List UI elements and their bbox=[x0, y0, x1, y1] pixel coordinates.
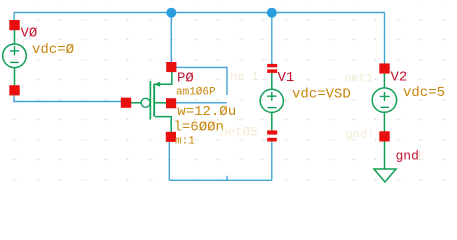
svg-text:V1: V1 bbox=[278, 70, 295, 86]
node net 1 label bbox=[230, 70, 259, 84]
gate bar bbox=[149, 81, 151, 119]
label V1 vdc=VSD bbox=[292, 86, 351, 102]
svg-text:PØ: PØ bbox=[177, 71, 194, 87]
wire drop to P0 top bbox=[170, 13, 172, 64]
svg-text:am1Ø6P: am1Ø6P bbox=[176, 87, 216, 99]
svg-text:vdc=VSD: vdc=VSD bbox=[292, 86, 351, 102]
svg-text:net1: net1 bbox=[344, 72, 373, 86]
label V2 vdc=5 bbox=[403, 85, 445, 101]
wire right drop to V2 bbox=[384, 13, 386, 65]
svg-text:ne 1: ne 1 bbox=[230, 70, 259, 84]
pin V1 plus (split bars) bbox=[267, 64, 277, 73]
svg-text:netØ5: netØ5 bbox=[220, 126, 258, 140]
svg-text:vdc=5: vdc=5 bbox=[403, 85, 445, 101]
wire bottom rail bbox=[169, 179, 271, 181]
wire V1 bottom drop bbox=[271, 142, 273, 181]
label P0 length bbox=[174, 120, 224, 136]
source lead with bend bbox=[155, 72, 172, 84]
pin V2 plus bbox=[379, 63, 389, 73]
pin V0 minus bbox=[9, 85, 19, 95]
wire stub on bottom rail bbox=[226, 176, 228, 181]
wire V0 to P0 gate bbox=[14, 95, 121, 102]
pin V2 minus / gnd pin bbox=[379, 131, 389, 141]
wire left drop to V0 bbox=[13, 13, 15, 22]
gate bubble bbox=[141, 98, 150, 107]
svg-text:VØ: VØ bbox=[21, 26, 38, 42]
label P0 model am106P bbox=[176, 87, 216, 99]
svg-text:!: ! bbox=[416, 149, 424, 164]
op-amp / transistor P0 (pmos am106P) symbol body bbox=[131, 72, 172, 132]
svg-text:vdc=Ø: vdc=Ø bbox=[32, 42, 74, 58]
label gnd net name bbox=[396, 149, 424, 164]
wire top VDD rail bbox=[14, 12, 385, 14]
voltage source V1 symbol body bbox=[260, 73, 283, 130]
pin P0 drain bottom bbox=[166, 132, 176, 142]
svg-text:m:1: m:1 bbox=[175, 136, 195, 148]
svg-text:l=6ØØn: l=6ØØn bbox=[174, 120, 224, 136]
label P0 width bbox=[177, 104, 236, 120]
junction dot J1 bbox=[166, 8, 176, 18]
pin V0 plus bbox=[9, 20, 19, 30]
source arrow bbox=[154, 82, 160, 87]
pin V1 minus (split bars) bbox=[267, 130, 277, 141]
svg-text:V2: V2 bbox=[391, 70, 408, 86]
junction dot J2 bbox=[267, 8, 277, 18]
label V1 instance name bbox=[278, 70, 295, 86]
wire bulk horizontal bbox=[176, 102, 227, 104]
pin P0 source top bbox=[166, 62, 176, 72]
pin P0 gate bbox=[121, 98, 131, 108]
svg-text:w=12.Øu: w=12.Øu bbox=[177, 104, 236, 120]
node gnd! label faint bbox=[346, 128, 375, 142]
channel bar bbox=[153, 84, 155, 117]
voltage source V2 symbol body bbox=[372, 74, 396, 132]
label P0 instance name bbox=[177, 71, 194, 87]
voltage source V0 symbol body bbox=[3, 30, 27, 85]
label V0 vdc=0 bbox=[32, 42, 74, 58]
ground symbol bbox=[374, 142, 396, 183]
label P0 multiplier m:1 bbox=[175, 136, 195, 148]
wire P0 drain down bbox=[168, 142, 170, 181]
node net05 label bbox=[220, 126, 258, 140]
pin P0 bulk bbox=[166, 98, 176, 108]
svg-text:gnd!: gnd! bbox=[346, 128, 375, 142]
drain lead with bend bbox=[155, 117, 171, 132]
label V0 instance name bbox=[21, 26, 38, 42]
node net1 label bbox=[344, 72, 373, 86]
gate lead bbox=[131, 102, 141, 104]
label V2 instance name bbox=[391, 70, 408, 86]
bulk lead bbox=[155, 102, 166, 104]
wire P0 source to bulk loop upper bbox=[176, 67, 227, 95]
wire drop to V1 top bbox=[271, 13, 273, 65]
